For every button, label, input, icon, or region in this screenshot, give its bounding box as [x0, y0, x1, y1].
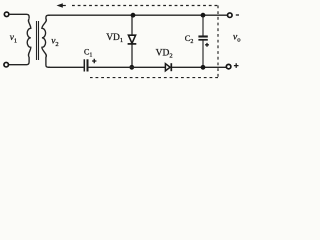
terminal bottom-left — [4, 62, 9, 67]
plus mark C2 — [205, 43, 209, 47]
wire top rail — [48, 14, 228, 16]
wire bottom rail right — [172, 66, 227, 68]
node junction C2-bottom — [201, 65, 206, 70]
capacitor C2 — [198, 15, 207, 67]
plus mark output bottom — [234, 63, 239, 68]
node junction VD1-top — [131, 13, 136, 18]
capacitor C1 — [84, 59, 87, 71]
minus mark output top — [236, 14, 239, 16]
transformer core — [36, 21, 38, 60]
diode VD2 — [165, 63, 171, 71]
node junction C2-top — [201, 13, 206, 18]
diode VD1 — [128, 15, 137, 67]
transformer primary coil — [27, 19, 31, 57]
node junction VD1-bottom — [129, 65, 134, 70]
plus mark C1 — [92, 59, 96, 63]
terminal top-right — [228, 13, 233, 18]
wire bottom rail mid — [88, 66, 165, 68]
transformer secondary coil — [42, 19, 46, 57]
wire primary bottom — [9, 57, 29, 65]
dashed loop arrow — [57, 3, 63, 7]
dashed loop right — [217, 6, 219, 78]
wire secondary bottom — [46, 57, 50, 68]
dashed loop top — [72, 5, 218, 7]
dashed loop bottom — [90, 77, 218, 79]
wire secondary top — [46, 15, 50, 19]
terminal top-left — [4, 12, 9, 16]
terminal bottom-right — [226, 64, 231, 69]
wire bottom rail left — [48, 66, 84, 68]
wire primary top — [9, 14, 29, 18]
